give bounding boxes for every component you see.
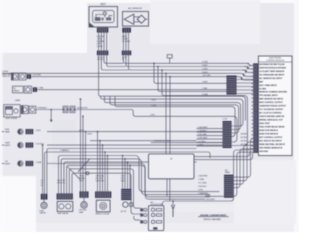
a/c sensor box bbox=[123, 12, 149, 27]
wire dist pin 1 upper bbox=[98, 33, 100, 51]
svg-text:3 LT GRN: 3 LT GRN bbox=[198, 183, 207, 185]
oil pressure symbol bbox=[24, 86, 31, 93]
relay wire to ECM 2 bbox=[194, 153, 253, 160]
svg-text:MAP SENSOR SIG INPUT: MAP SENSOR SIG INPUT bbox=[259, 98, 284, 101]
stack E connector bbox=[121, 189, 131, 200]
ECM pin stub 21 bbox=[252, 138, 254, 140]
svg-text:2 GRA: 2 GRA bbox=[198, 178, 204, 181]
ECM loop wire 4 bbox=[233, 149, 253, 188]
wire dist pin 4 upper bbox=[106, 33, 108, 51]
C210u to ECM link 2 bbox=[237, 82, 254, 84]
wire mid y99 left curve bbox=[101, 96, 103, 99]
stack B component box bbox=[57, 201, 73, 211]
choke symbol 2 bbox=[29, 106, 36, 113]
wire dist pin 2 upper bbox=[100, 33, 102, 51]
wire dist pin 3 upper bbox=[103, 33, 105, 51]
ECM pin stub 3 bbox=[252, 72, 254, 74]
white right margin bbox=[294, 0, 299, 232]
ECM loop wire 3 bbox=[233, 145, 253, 184]
C210 lead 6 bbox=[197, 145, 223, 147]
ECM pin stub 24 bbox=[252, 149, 254, 151]
svg-text:452 BLK: 452 BLK bbox=[241, 140, 249, 142]
white gap top middle bbox=[150, 0, 260, 44]
A/C clutch element 3 bar bbox=[156, 221, 161, 223]
band wire b6 bbox=[72, 173, 140, 214]
svg-text:68: 68 bbox=[122, 59, 124, 61]
A/C clutch box bbox=[148, 206, 163, 231]
distributor inner housing bbox=[93, 10, 114, 22]
ECM connector bar bbox=[253, 63, 258, 152]
wire drop to conn C1 bbox=[80, 99, 82, 191]
svg-text:4 ORN: 4 ORN bbox=[202, 62, 208, 64]
distributor module box bbox=[89, 7, 118, 28]
ECM pin stub 8 bbox=[252, 90, 254, 92]
ECM pin stub 4 bbox=[252, 75, 254, 77]
ECM list box bbox=[258, 56, 292, 156]
ECM pin stub 20 bbox=[252, 134, 254, 136]
ECM pin stub 19 bbox=[252, 130, 254, 132]
flag splice symbol bbox=[167, 55, 172, 58]
C210 lead 1 bbox=[197, 128, 223, 130]
a/c sensor internal wires bbox=[134, 17, 148, 22]
relay bottom wire 2 bbox=[169, 179, 171, 201]
wire drop to conn A1 bbox=[42, 145, 44, 194]
svg-text:A/C SENSOR SIG INPUT: A/C SENSOR SIG INPUT bbox=[259, 77, 283, 80]
drop x162 to line y95.6 bbox=[162, 70, 247, 146]
connector C210 block bbox=[223, 121, 232, 148]
C210u to ECM link 3 bbox=[237, 86, 254, 88]
svg-text:2 BLK: 2 BLK bbox=[151, 99, 157, 101]
C210u to ECM link 5 bbox=[237, 93, 254, 95]
connector C1 distributor pins bbox=[97, 28, 108, 33]
ECM loop wire 1 bbox=[233, 138, 253, 177]
choke junction dot bbox=[50, 109, 52, 111]
ECM pin stub 6 bbox=[252, 83, 254, 85]
stack A connector bbox=[41, 194, 48, 200]
choke heater sym 1 bbox=[63, 106, 68, 112]
wire drop to conn D2 bbox=[99, 141, 101, 192]
svg-text:ENGINE COMPARTMENT: ENGINE COMPARTMENT bbox=[200, 214, 227, 217]
light patch bottom right bbox=[234, 160, 296, 224]
distributor corner blob bbox=[90, 23, 95, 27]
diagonal harness wire bbox=[68, 167, 81, 180]
wire fuel tank (R4) bbox=[47, 131, 223, 133]
svg-text:1 PPL: 1 PPL bbox=[150, 115, 155, 117]
svg-text:430 431: 430 431 bbox=[97, 59, 103, 61]
fuel tank sender left stub bbox=[2, 131, 5, 133]
svg-text:5 BR 6 WH: 5 BR 6 WH bbox=[95, 181, 104, 183]
ECM pin stub 1 bbox=[252, 64, 254, 66]
svg-text:ESC KNOCK SIG INPUT: ESC KNOCK SIG INPUT bbox=[259, 140, 282, 142]
svg-text:FUEL PUMP RELAY DRIVE: FUEL PUMP RELAY DRIVE bbox=[259, 126, 285, 129]
svg-text:GAUGE: GAUGE bbox=[40, 212, 47, 215]
ECM header separator bbox=[258, 61, 292, 63]
svg-text:3 PPL: 3 PPL bbox=[79, 181, 84, 183]
scan shadow between bundles bbox=[109, 27, 121, 63]
band wire b2 bbox=[61, 159, 210, 195]
ECM pin stub 12 bbox=[252, 105, 254, 107]
band wire b3 bbox=[64, 162, 197, 193]
C210 lead 5 bbox=[197, 142, 223, 144]
wire drop to conn D5 bbox=[107, 156, 109, 192]
svg-text:A/C SENSOR: A/C SENSOR bbox=[128, 7, 142, 10]
svg-text:TEMP GAUGE: TEMP GAUGE bbox=[57, 212, 69, 215]
band wire b4 bbox=[67, 165, 205, 199]
ECM pin stub 10 bbox=[252, 97, 254, 99]
wire choke to staircase bbox=[36, 109, 131, 111]
drop x170 to relay box bbox=[169, 77, 171, 154]
wire a/c-2 onto bus 2 bbox=[126, 55, 247, 66]
svg-text:2 TAN: 2 TAN bbox=[38, 87, 44, 90]
wire mid y106.6 bbox=[115, 96, 235, 136]
svg-text:TCC SOLENOID OUTPUT: TCC SOLENOID OUTPUT bbox=[259, 109, 284, 111]
wire drop to conn C2 bbox=[82, 116, 84, 191]
wire drop conn E2 bbox=[124, 159, 126, 189]
svg-text:5 GRN: 5 GRN bbox=[202, 68, 208, 70]
oil pressure connector bbox=[33, 87, 37, 92]
svg-text:DISTRIBUTOR REF PULSE: DISTRIBUTOR REF PULSE bbox=[259, 64, 285, 66]
svg-text:1 BLK/WHT (CONV): 1 BLK/WHT (CONV) bbox=[154, 141, 171, 143]
svg-text:TPS SIGNAL INPUT: TPS SIGNAL INPUT bbox=[259, 94, 278, 97]
wire engine temp to ECM bbox=[31, 77, 253, 80]
stack B circle 2 bbox=[66, 204, 71, 209]
connector C3 harness left bbox=[97, 51, 108, 56]
C210 lead 3 bbox=[197, 135, 223, 137]
band wire y148.5 to conn A bbox=[47, 149, 197, 194]
temp sender left stub bbox=[2, 144, 5, 146]
svg-text:1 WHT: 1 WHT bbox=[202, 82, 209, 84]
svg-text:COOLANT TEMP SENSOR: COOLANT TEMP SENSOR bbox=[259, 70, 285, 73]
white bottom strip bbox=[36, 223, 299, 232]
temp sender connector bbox=[26, 143, 34, 148]
wire a/c pin 3 upper bbox=[128, 33, 130, 51]
ECM pin stub 9 bbox=[252, 94, 254, 96]
svg-text:CANISTER PURGE OUTPUT: CANISTER PURGE OUTPUT bbox=[259, 105, 286, 108]
svg-text:2 BLK/WHT: 2 BLK/WHT bbox=[205, 199, 216, 201]
A/C clutch element 2 bar bbox=[156, 214, 161, 216]
svg-text:2 GRA: 2 GRA bbox=[79, 177, 85, 180]
stack E small part bbox=[130, 203, 133, 207]
svg-text:INJECTOR DRIVE A: INJECTOR DRIVE A bbox=[259, 129, 278, 132]
distributor module component right bbox=[106, 17, 111, 20]
ECM pin stub 18 bbox=[252, 127, 254, 129]
ECM pin stub 5 bbox=[252, 79, 254, 81]
svg-text:1 GRA: 1 GRA bbox=[36, 161, 42, 164]
distributor pickup coil circle bbox=[103, 12, 106, 15]
fuel tank sender circle symbol bbox=[18, 129, 23, 134]
wire mid y104.8 bbox=[110, 96, 239, 133]
svg-text:6 WHT: 6 WHT bbox=[202, 65, 208, 67]
wire a/c-3 onto bus 3 bbox=[129, 55, 246, 70]
svg-text:ELEC CHOKE: ELEC CHOKE bbox=[6, 118, 18, 120]
connector C4 harness right bbox=[122, 51, 131, 56]
svg-text:6 TAN/B: 6 TAN/B bbox=[97, 40, 105, 43]
wire drop conn E1 bbox=[122, 156, 124, 189]
connector C2 a/c sensor pins bbox=[122, 28, 131, 33]
title underline main bbox=[198, 216, 229, 218]
drop x158 to C210u pin3 bbox=[158, 67, 227, 92]
svg-text:PARK NEUTRAL SW INPUT: PARK NEUTRAL SW INPUT bbox=[259, 143, 286, 146]
svg-text:6 TAN/WHT: 6 TAN/WHT bbox=[198, 192, 209, 195]
wire drop to conn D3 bbox=[102, 145, 104, 191]
wire temp sender (R5) bbox=[47, 144, 223, 146]
antenna feed wire bbox=[172, 201, 174, 206]
stack E circle bbox=[123, 202, 128, 207]
wire a/c pin 1 upper bbox=[122, 33, 124, 51]
drop x166 to relay box bbox=[165, 73, 167, 154]
engine temp symbol 2 bbox=[19, 73, 26, 80]
diagonal harness wire 2 bbox=[78, 159, 90, 173]
wire choke staircase down bbox=[131, 110, 237, 143]
svg-text:5 PPL: 5 PPL bbox=[198, 190, 203, 192]
svg-text:4 GRN: 4 GRN bbox=[97, 46, 103, 48]
stack A lamp lead bbox=[43, 200, 45, 203]
svg-text:C-210: C-210 bbox=[222, 119, 227, 121]
carb inner box bbox=[5, 107, 12, 115]
oil pressure sender label box bbox=[12, 86, 23, 93]
ground bus line bbox=[2, 73, 253, 77]
choke heater sym 2 bbox=[70, 106, 75, 112]
svg-text:DIST: DIST bbox=[101, 4, 107, 6]
relay bottom wire 1 bbox=[166, 179, 168, 197]
svg-text:IGNITION MODULE BYPASS: IGNITION MODULE BYPASS bbox=[259, 66, 286, 69]
svg-text:HARN: HARN bbox=[225, 171, 231, 174]
svg-text:EGR CONTROL OUTPUT: EGR CONTROL OUTPUT bbox=[259, 102, 283, 104]
a/c sensor diamond bbox=[137, 15, 146, 23]
A/C clutch element 1 bar bbox=[156, 209, 161, 211]
wire mid y102.6 bbox=[104, 96, 240, 129]
bus 3 fan into ECM pin 3 bbox=[243, 69, 254, 73]
white left margin strip bbox=[0, 53, 3, 183]
stack C lamp circle bbox=[81, 202, 87, 208]
svg-text:SNDR: SNDR bbox=[5, 145, 11, 147]
light patch bottom mid bbox=[176, 204, 234, 212]
wire drop conn E4 bbox=[129, 165, 131, 189]
svg-text:1 BK 2 GA: 1 BK 2 GA bbox=[95, 174, 104, 177]
svg-text:SPEEDO CLUSTER: SPEEDO CLUSTER bbox=[95, 213, 110, 215]
svg-text:10 BLK: 10 BLK bbox=[202, 72, 209, 74]
A/C clutch terminal 1 bbox=[140, 208, 143, 211]
svg-text:5V REF: 5V REF bbox=[259, 88, 267, 90]
svg-text:OIL PRESSURE SW INPUT: OIL PRESSURE SW INPUT bbox=[259, 74, 285, 76]
svg-text:4 BLK: 4 BLK bbox=[87, 133, 93, 135]
stack C lamp lead bbox=[83, 198, 85, 202]
svg-text:SNDR: SNDR bbox=[5, 163, 11, 165]
svg-text:CARB: CARB bbox=[15, 99, 21, 102]
C210u to ECM link 1 bbox=[237, 79, 254, 81]
connector C240 block bbox=[224, 175, 233, 198]
wire drop to conn C3 bbox=[85, 132, 87, 192]
wire mid y99 bbox=[103, 99, 243, 126]
svg-text:3 PP 4 TN: 3 PP 4 TN bbox=[57, 183, 66, 185]
A/C clutch terminal 2 bbox=[140, 213, 143, 216]
distributor internal wire bbox=[96, 15, 112, 18]
svg-text:SERIAL DATA ALDL OUT: SERIAL DATA ALDL OUT bbox=[259, 119, 283, 122]
dot inside relay box bbox=[171, 158, 172, 159]
stack C connector bbox=[80, 191, 89, 197]
wire a/c-1 onto bus 1 bbox=[123, 55, 249, 63]
A/C clutch bottom blob bbox=[153, 227, 157, 229]
svg-text:1 BLK/PNK: 1 BLK/PNK bbox=[198, 176, 208, 178]
svg-text:SENSOR COMMON GROUND: SENSOR COMMON GROUND bbox=[259, 92, 287, 94]
svg-text:451 BLK: 451 BLK bbox=[241, 137, 249, 139]
wire a/c pin 2 upper bbox=[125, 33, 127, 51]
wire dist-0 long drop bbox=[99, 55, 246, 120]
svg-text:VEH SPEED SENSOR IN: VEH SPEED SENSOR IN bbox=[259, 147, 283, 149]
choke ground drop wire bbox=[50, 110, 52, 120]
svg-text:10 BLK: 10 BLK bbox=[2, 71, 9, 73]
A/C clutch element 3 circle bbox=[151, 220, 154, 223]
svg-text:1 DK GRN: 1 DK GRN bbox=[32, 75, 41, 77]
wire dist-1 onto bus 3 bbox=[101, 55, 128, 70]
svg-text:3 RED: 3 RED bbox=[151, 105, 157, 107]
svg-text:SWITCH: SWITCH bbox=[2, 76, 10, 78]
svg-text:2 TAN/BLK: 2 TAN/BLK bbox=[60, 149, 70, 152]
distributor module component left bbox=[95, 17, 101, 21]
stack B circle 1 bbox=[59, 204, 64, 209]
ECM pin stub 16 bbox=[252, 119, 254, 121]
wire dist-2 onto bus 1 bbox=[104, 55, 123, 63]
svg-text:4 DK BLU: 4 DK BLU bbox=[198, 186, 207, 188]
carb inner circle bbox=[14, 109, 18, 113]
ECM loop wire 2 bbox=[233, 142, 253, 181]
svg-text:DIAG TEST: DIAG TEST bbox=[259, 122, 270, 125]
ECM loop wire 5 bbox=[205, 152, 253, 196]
A/C clutch element 2 circle bbox=[151, 213, 154, 216]
fuel tank sender connector bbox=[26, 129, 34, 134]
band wire b5 bbox=[69, 169, 140, 208]
a/c sensor triangle bbox=[124, 14, 134, 24]
ECM pin stub 11 bbox=[252, 101, 254, 103]
svg-text:GROUND: GROUND bbox=[259, 151, 268, 153]
C210 lead 2 bbox=[197, 131, 223, 133]
svg-text:2 TAN: 2 TAN bbox=[202, 87, 208, 90]
drop x154 to C210u pin1 bbox=[154, 63, 227, 83]
stack B connector bbox=[57, 193, 73, 199]
band wire y177 stub bbox=[134, 216, 140, 220]
wire oil sender (R6) bbox=[47, 164, 210, 197]
white bottom-left corner bbox=[0, 176, 36, 232]
wire dist-3 onto bus 2 bbox=[107, 55, 126, 66]
svg-text:450 BLK: 450 BLK bbox=[241, 133, 249, 135]
ECM pin stub 22 bbox=[252, 141, 254, 143]
temp sender circle symbol bbox=[18, 142, 23, 147]
stack D component box bbox=[96, 200, 110, 212]
white top-left corner of scan bbox=[0, 0, 87, 53]
wire oil pressure to C210u bbox=[37, 89, 226, 91]
wire drop conn E3 bbox=[127, 162, 129, 189]
oil sender circle symbol bbox=[18, 161, 23, 166]
wire drop to conn D1 bbox=[97, 132, 99, 192]
oil sender left stub bbox=[2, 163, 5, 165]
band wire b1 bbox=[59, 156, 220, 194]
svg-text:IGN 1 FEED INPUT: IGN 1 FEED INPUT bbox=[259, 85, 277, 87]
scan shadow mid left bbox=[52, 120, 76, 168]
ECM pin stub 15 bbox=[252, 116, 254, 118]
svg-text:INJECTOR DRIVE B: INJECTOR DRIVE B bbox=[259, 134, 278, 136]
C210u to ECM link 4 bbox=[237, 89, 254, 91]
ECM pin stub 13 bbox=[252, 108, 254, 110]
svg-text:A/C CLUTCH CONTROL: A/C CLUTCH CONTROL bbox=[259, 112, 282, 115]
ECM pin stub 7 bbox=[252, 86, 254, 88]
svg-text:1 DK GRN: 1 DK GRN bbox=[202, 75, 211, 77]
engine temp connector bbox=[27, 74, 31, 79]
band wire y152 to conn A bbox=[45, 152, 211, 194]
relay box outline bbox=[149, 154, 195, 179]
stack A lamp circle bbox=[41, 202, 47, 208]
stack D inner circle bbox=[100, 203, 107, 210]
connector C210 upper block bbox=[227, 76, 237, 95]
ECM loop wire 6 bbox=[162, 150, 251, 206]
ECM pin stub 2 bbox=[252, 68, 254, 70]
svg-text:2 GRA: 2 GRA bbox=[122, 37, 128, 40]
antenna Y symbol bbox=[171, 205, 174, 217]
svg-text:3 PNK/BLK: 3 PNK/BLK bbox=[37, 107, 47, 109]
oil sender connector bbox=[26, 161, 34, 166]
band wire y140.7 bbox=[90, 140, 197, 142]
choke symbol 1 bbox=[21, 106, 28, 114]
svg-text:CHOKE HTR: CHOKE HTR bbox=[77, 107, 89, 109]
ECM pin stub 14 bbox=[252, 112, 254, 114]
relay wire to ECM 1 bbox=[194, 153, 249, 157]
svg-text:CHECK ENGINE LAMP DR: CHECK ENGINE LAMP DR bbox=[259, 115, 285, 118]
ECM pin stub 17 bbox=[252, 123, 254, 125]
svg-text:EST CONTROL OUTPUT: EST CONTROL OUTPUT bbox=[259, 137, 283, 139]
stack D connector bbox=[95, 191, 111, 198]
svg-text:PRESS: PRESS bbox=[13, 90, 20, 92]
A/C clutch element 1 circle bbox=[151, 208, 154, 211]
A/C clutch terminal 3 bbox=[140, 220, 143, 223]
ECM pin stub 23 bbox=[252, 145, 254, 147]
bus 1 fan into ECM pin 1 bbox=[247, 63, 254, 66]
svg-text:2 BLK: 2 BLK bbox=[36, 130, 42, 132]
svg-text:WIRING DIAGRAM: WIRING DIAGRAM bbox=[203, 218, 221, 221]
svg-text:3 GRA: 3 GRA bbox=[202, 93, 208, 96]
carb assembly box bbox=[4, 105, 21, 117]
C210 lead 4 bbox=[197, 138, 223, 140]
choke ground arrow bbox=[50, 120, 53, 123]
wire 1 BLK/WHT conv bbox=[151, 142, 223, 144]
engine temp symbol 1 bbox=[11, 73, 18, 80]
band circle symbol bbox=[86, 172, 89, 175]
bus 2 fan into ECM pin 2 bbox=[245, 66, 254, 70]
wire drop to conn D4 bbox=[104, 152, 106, 191]
